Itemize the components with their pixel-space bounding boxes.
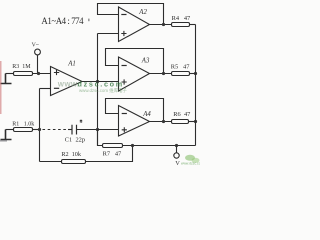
watermark smudge bottom left <box>0 140 7 142</box>
wire A2 + input <box>98 33 119 35</box>
output terminal <box>176 146 178 153</box>
wire ground to R1 <box>6 129 14 131</box>
wire A4 output <box>150 121 172 123</box>
wire bottom rail R7 <box>98 130 196 146</box>
wire R4 to bus <box>190 24 196 26</box>
wire ground to R3 <box>6 73 14 75</box>
svg-text:A3: A3 <box>141 58 150 65</box>
svg-text:R4 47: R4 47 <box>172 15 191 22</box>
node R6 bus <box>194 120 197 123</box>
svg-text:WWW.: WWW. <box>58 81 79 88</box>
resistor R3 <box>14 72 33 76</box>
wire A2 feedback loop <box>98 4 164 25</box>
node output tap <box>175 144 178 147</box>
svg-text:R5 47: R5 47 <box>171 63 190 70</box>
resistor R6 <box>172 120 189 124</box>
wire A1 - input <box>40 88 51 90</box>
node inverting <box>38 128 41 131</box>
wire input stem <box>37 55 39 74</box>
speck top right of title <box>88 19 90 22</box>
op-amp A1 <box>51 67 83 96</box>
svg-text:R1 1.0k: R1 1.0k <box>12 121 34 127</box>
node A2 out <box>162 23 165 26</box>
node bus/A1 out <box>96 80 99 83</box>
svg-text:A2: A2 <box>138 9 147 16</box>
resistor R7 <box>103 144 123 148</box>
wire R1 to node <box>33 129 40 131</box>
svg-text:www.dzsc.com 维库电子: www.dzsc.com 维库电子 <box>79 87 127 94</box>
svg-text:R3 1M: R3 1M <box>12 64 31 70</box>
A2 minus glyph <box>121 14 126 16</box>
resistor R2 <box>62 160 86 164</box>
wire R6 to bus <box>189 121 196 123</box>
A4 minus glyph <box>122 113 127 115</box>
svg-text:C1 22p: C1 22p <box>65 137 85 144</box>
svg-text:V: V <box>175 160 180 166</box>
node A3 out <box>162 72 165 75</box>
wire C1 to bus <box>77 129 98 131</box>
ground (R3) <box>1 74 12 84</box>
ground (R1) <box>1 130 12 140</box>
svg-text:V~: V~ <box>32 42 39 48</box>
wire signal bus vertical <box>97 34 99 146</box>
svg-text:R6 47: R6 47 <box>173 111 191 118</box>
mark asterisk <box>80 120 82 123</box>
node bus/C1 <box>96 128 99 131</box>
op-amp A2 <box>119 7 150 42</box>
node A4 out <box>162 120 165 123</box>
resistor R5 <box>172 72 190 76</box>
watermark red bar left edge <box>0 61 2 114</box>
svg-text:www.dzsc.com: www.dzsc.com <box>181 161 200 165</box>
wire right output bus <box>195 25 197 146</box>
resistor R4 <box>172 23 190 27</box>
svg-text:A4: A4 <box>142 111 151 118</box>
wire A1 output to A3 + <box>82 81 119 83</box>
wire A3 output <box>150 73 172 75</box>
op-amp A4 <box>119 106 150 137</box>
svg-text:R7 47: R7 47 <box>103 150 122 157</box>
A1 minus glyph <box>54 87 59 89</box>
wire R3 to A1 + <box>33 73 51 75</box>
watermark logo bottom right <box>181 155 204 166</box>
node input junction <box>37 72 40 75</box>
A3 plus glyph <box>122 79 127 84</box>
svg-text:R2 10k: R2 10k <box>61 151 82 158</box>
input terminal V~ <box>35 49 41 55</box>
wire feedback vertical <box>39 89 41 162</box>
A4 plus glyph <box>122 127 127 132</box>
wire R2 rail <box>40 146 133 162</box>
svg-text:A1: A1 <box>67 61 76 68</box>
wire A3 feedback loop <box>106 49 164 74</box>
capacitor C1 <box>72 125 77 135</box>
wire bus to A4 + <box>98 129 119 131</box>
A1 plus glyph <box>54 70 59 75</box>
resistor R1 <box>14 128 33 132</box>
op-amp A3 <box>119 57 150 91</box>
node R2 join <box>131 144 134 147</box>
wire A4 feedback loop <box>106 99 164 122</box>
wire A2 output <box>150 24 172 26</box>
svg-text:A1~A4 : 774: A1~A4 : 774 <box>41 16 84 26</box>
node R5 bus <box>194 72 197 75</box>
wire dashed to C1 <box>43 129 69 131</box>
A2 plus glyph <box>121 31 126 36</box>
wire R5 to bus <box>190 73 196 75</box>
A3 minus glyph <box>122 65 127 67</box>
